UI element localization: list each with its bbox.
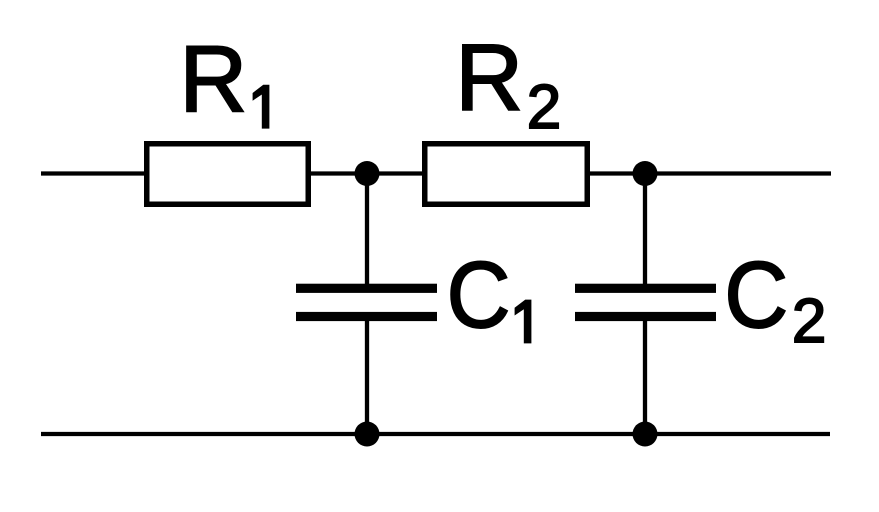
label R2 — [455, 25, 561, 142]
svg-text:2: 2 — [792, 287, 826, 356]
capacitor C2 — [575, 284, 716, 321]
wire top rail middle segment — [308, 171, 425, 175]
resistor R2 — [425, 144, 588, 205]
wire bottom rail (ground) — [41, 432, 830, 436]
svg-text:R: R — [179, 26, 247, 131]
capacitor C1 — [296, 284, 437, 321]
wire top rail right segment (output) — [587, 171, 831, 175]
wire node1 down to C1 top plate — [365, 174, 369, 291]
label C2 — [724, 242, 826, 356]
wire node2 down to C2 top plate — [643, 174, 647, 291]
node junction bottom-left — [355, 422, 380, 447]
svg-text:C: C — [724, 242, 788, 347]
node junction top-left — [355, 161, 380, 186]
label R1 — [179, 26, 269, 131]
svg-text:R: R — [455, 25, 523, 130]
wire C2 bottom plate down to bottom rail — [643, 315, 647, 434]
wire top rail left segment (input) — [41, 171, 148, 175]
svg-text:2: 2 — [527, 73, 561, 142]
wire C1 bottom plate down to bottom rail — [365, 315, 369, 434]
label C1 — [447, 242, 531, 347]
node junction bottom-right — [633, 422, 658, 447]
resistor R1 — [147, 144, 309, 205]
node junction top-right — [633, 161, 658, 186]
svg-text:C: C — [447, 242, 511, 347]
